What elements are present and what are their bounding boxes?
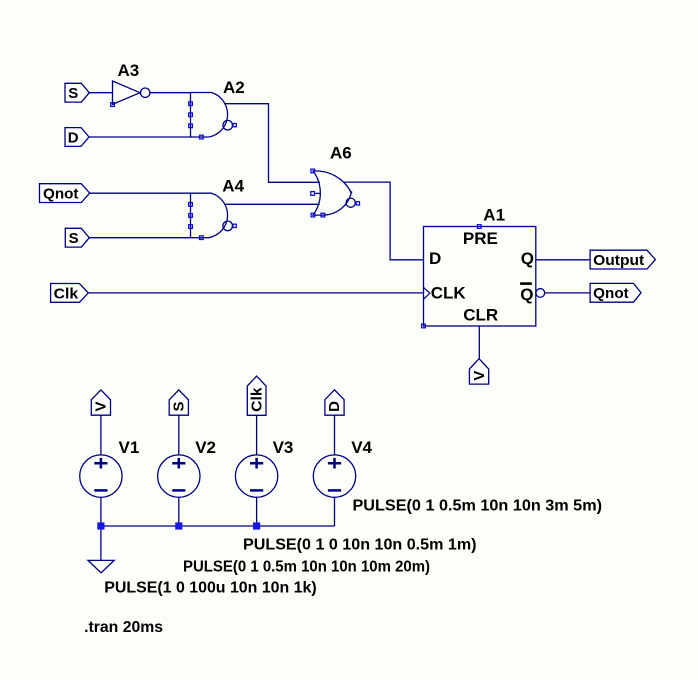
wire rail to ground symbol [100,526,102,560]
svg-text:.tran 20ms: .tran 20ms [84,619,163,636]
A1 CLK chevron [424,288,430,299]
flag Clk (input) [51,284,89,303]
voltage source V1 [80,455,122,497]
svg-text:PULSE(0 1 0.5m 10n 10n 3m 5m): PULSE(0 1 0.5m 10n 10n 3m 5m) [353,497,603,514]
svg-text:D: D [429,249,441,268]
svg-text:Clk: Clk [248,387,265,412]
wire A2 output to A6 input 2 [224,104,320,183]
junction V1/rail [97,522,104,529]
flag D (above V4) [325,390,344,415]
flag Qnot (output) [590,283,641,302]
svg-text:S: S [171,401,188,411]
pin A1 bottom-left [422,324,426,328]
wire V3 bottom to ground rail [256,497,258,526]
svg-text:PRE: PRE [463,229,498,248]
pin label Qbar [520,282,533,304]
svg-text:S: S [69,230,79,247]
svg-text:A2: A2 [223,78,245,97]
svg-text:D: D [326,401,343,412]
wire D flag to V4 top [334,415,336,455]
wire V4 bottom to ground rail [334,497,336,526]
wire Qnot to A4 input 1 [90,192,191,194]
or gate A6 [313,171,355,215]
flag Output [590,250,655,269]
A1 Qbar bubble [536,289,545,298]
svg-text:A1: A1 [483,206,505,225]
flag Clk (above V3) [247,376,266,415]
svg-text:V3: V3 [273,438,294,457]
svg-text:S: S [68,85,78,102]
junction V2/rail [175,522,182,529]
svg-text:CLK: CLK [431,284,467,303]
wire A1 Q to Output flag [536,259,590,261]
pin A3 input [111,103,115,107]
flag S (to inverter) [65,83,89,102]
ground [88,560,114,572]
wire A4 output to A6 input 4 [224,203,320,205]
wire Clk to A1 CLK input [88,292,423,294]
wire V1 bottom to ground rail [100,497,102,526]
pin A1 PRE [477,225,481,229]
svg-text:Qnot: Qnot [593,285,629,302]
flag V (above V1) [91,390,110,415]
node A6 output tip [350,191,352,193]
wire V2 bottom to ground rail [178,497,180,526]
wire A6 output to A1 D input [344,182,424,260]
svg-text:PULSE(1 0 100u 10n 10n 1k): PULSE(1 0 100u 10n 10n 1k) [104,580,316,597]
svg-text:PULSE(0 1 0 10n 10n 0.5m 1m): PULSE(0 1 0 10n 10n 0.5m 1m) [243,537,477,554]
voltage source V2 [158,455,200,497]
flag D [65,128,89,147]
svg-text:Q: Q [521,249,534,268]
wire S flag to V2 top [178,415,180,455]
junction V3/rail [253,522,260,529]
wire ground rail [101,525,335,527]
wire V flag to V1 top [100,415,102,455]
pins A6 unconnected inputs and inverted output [311,169,360,217]
svg-text:V1: V1 [119,438,140,457]
flag Qnot (input) [40,184,90,203]
wire S to A4 input 5 [89,237,190,239]
nand gate A2 [191,93,233,138]
voltage source V4 [313,455,355,497]
flag V (below A1 CLR) [469,359,488,384]
wire A1 Qbar to Qnot flag [545,292,590,294]
svg-text:Q: Q [520,285,533,304]
nand gate A4 [191,193,233,238]
wire S to inverter A3 [89,92,112,94]
wire D to A2 input 5 [87,136,190,138]
svg-text:Output: Output [593,252,644,269]
svg-text:CLR: CLR [463,305,498,324]
pins A2 unconnected inputs and inverted output [189,102,237,139]
svg-text:A3: A3 [118,61,140,80]
svg-text:Qnot: Qnot [43,186,79,203]
pins A4 unconnected inputs and inverted output [189,203,237,240]
wire Clk flag to V3 top [256,415,258,455]
svg-text:D: D [68,129,79,146]
svg-text:A4: A4 [222,177,244,196]
wire A1 CLR to V flag [478,326,480,359]
flag S (to A4) [65,228,89,247]
wire inverter A3 output to A2 input 1 [150,92,191,94]
flag S (above V2) [169,390,188,415]
svg-text:V: V [471,371,488,381]
svg-text:Clk: Clk [54,285,79,302]
svg-text:V2: V2 [195,438,216,457]
svg-text:A6: A6 [330,144,352,163]
svg-text:PULSE(0 1 0.5m 10n 10n 10m 20m: PULSE(0 1 0.5m 10n 10n 10m 20m) [183,559,430,576]
svg-text:V4: V4 [351,438,372,457]
D flip-flop A1 body [424,227,536,327]
svg-text:V: V [93,401,110,411]
inverter A3 [113,81,150,104]
voltage source V3 [235,455,277,497]
